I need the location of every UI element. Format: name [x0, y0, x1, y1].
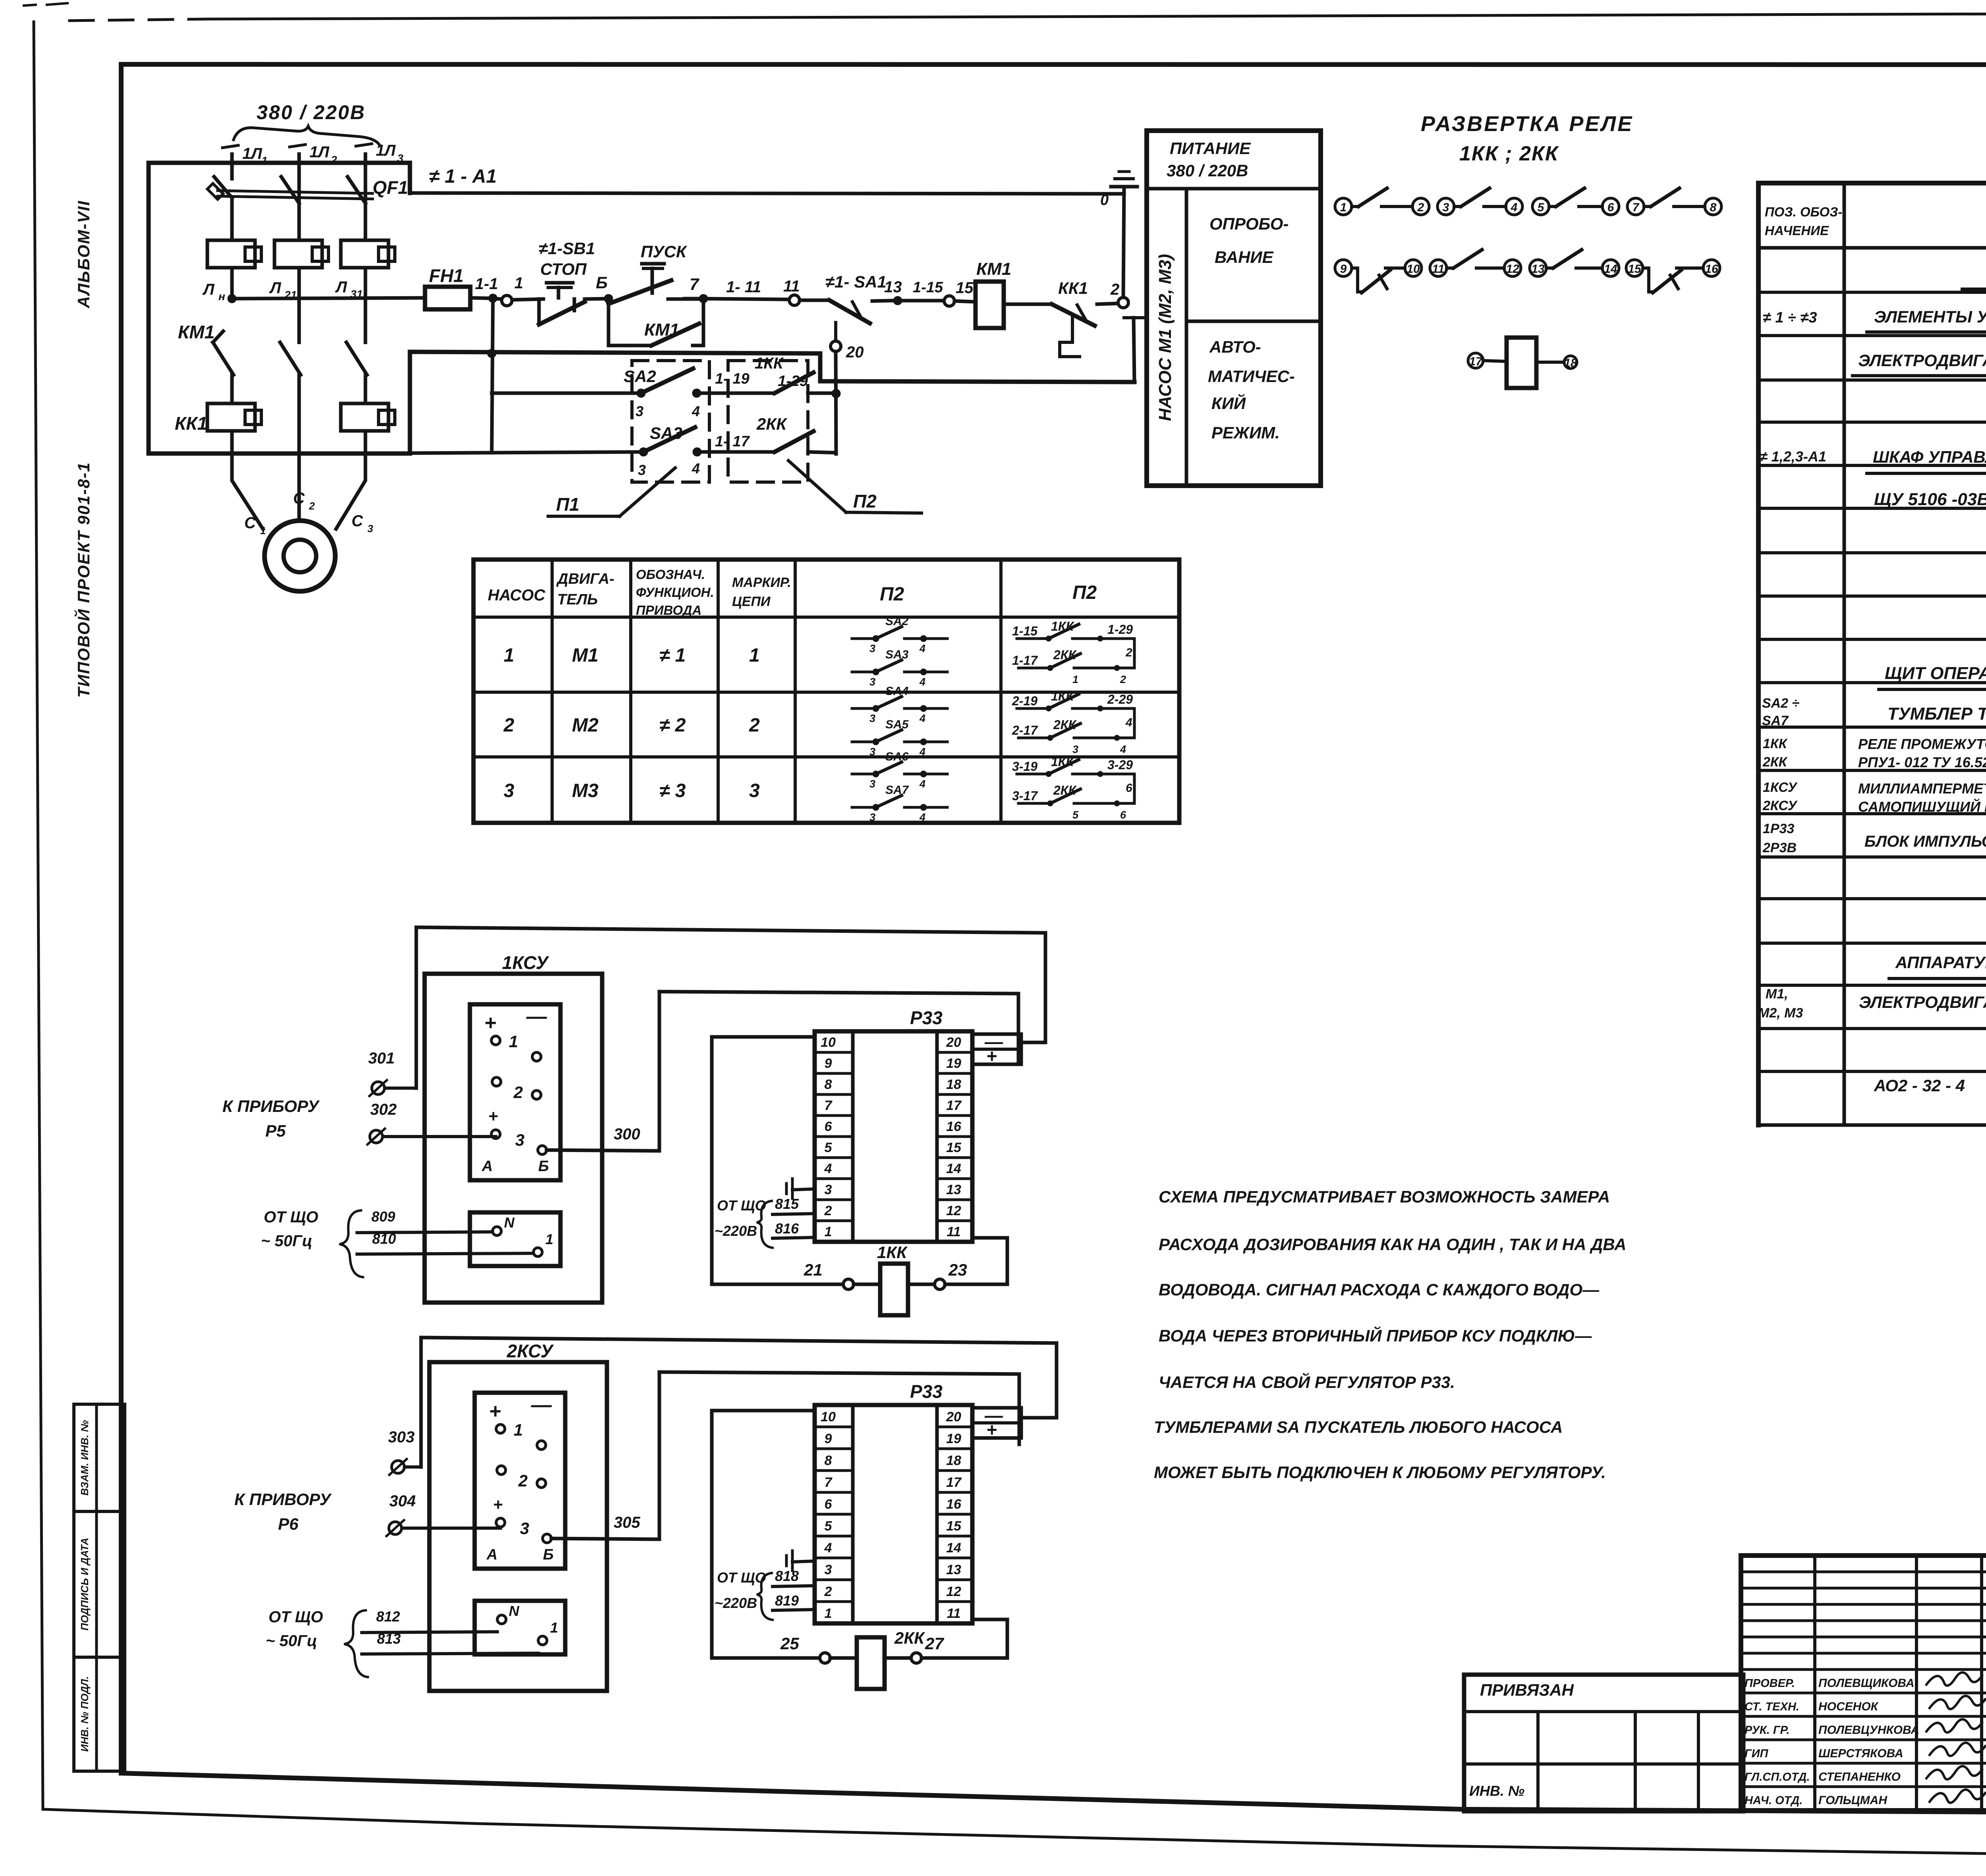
relay dev contact 3-4 — [1437, 188, 1522, 215]
svg-text:РЕЖИМ.: РЕЖИМ. — [1211, 423, 1280, 442]
svg-text:812: 812 — [376, 1608, 400, 1625]
pump table row 2 tumbler contacts SА4/SА5 — [852, 685, 947, 758]
svg-text:ПИТАНИЕ: ПИТАНИЕ — [1170, 139, 1251, 158]
ground symbol — [1100, 172, 1137, 208]
switch SA2 contact — [624, 367, 701, 419]
svg-text:~220В: ~220В — [715, 1595, 757, 1611]
svg-text:2Р3В: 2Р3В — [1762, 840, 1797, 855]
svg-text:23: 23 — [948, 1260, 967, 1279]
svg-text:3: 3 — [367, 523, 373, 535]
label C1 — [244, 514, 266, 537]
parts header Поз. обозначение — [1765, 205, 1842, 238]
parts table grid — [1758, 183, 1986, 1125]
svg-text:14: 14 — [946, 1161, 961, 1176]
svg-text:СТЕПАНЕНКО: СТЕПАНЕНКО — [1818, 1770, 1901, 1783]
svg-text:Б: Б — [538, 1158, 549, 1175]
svg-text:1КСУ: 1КСУ — [1763, 780, 1798, 795]
svg-text:КИЙ: КИЙ — [1211, 393, 1246, 413]
parts row элементы управления — [1763, 307, 1986, 332]
corner mark top-left — [24, 3, 68, 6]
start button SB1 NO contact — [609, 264, 703, 304]
svg-text:Р33: Р33 — [910, 1381, 943, 1402]
drawing frame left — [119, 64, 124, 1773]
start button ПУСК label — [641, 242, 688, 261]
svg-text:1: 1 — [1072, 674, 1078, 685]
contactor coil KM1 — [976, 259, 1011, 328]
svg-text:н: н — [218, 290, 225, 303]
title block outline — [1741, 1556, 1986, 1810]
supply wires 812/813 from ЩО 50Гц — [266, 1608, 538, 1677]
svg-text:305: 305 — [614, 1514, 640, 1531]
svg-text:2-17: 2-17 — [1012, 723, 1038, 737]
svg-text:13: 13 — [946, 1182, 961, 1197]
svg-text:17: 17 — [1469, 355, 1483, 368]
wire SA3 row left — [410, 452, 643, 453]
sheet outer border bottom edge — [43, 1809, 1986, 1862]
svg-text:3: 3 — [749, 780, 760, 801]
left stamp box Привязан — [1464, 1675, 1743, 1811]
svg-text:СХЕМА ПРЕДУСМАТРИВАЕТ ВОЗМОЖ: СХЕМА ПРЕДУСМАТРИВАЕТ ВОЗМОЖНОСТЬ ЗАМЕРА — [1159, 1187, 1610, 1206]
antenna symbol at Р33 terminal 3 (channel 2) — [786, 1551, 815, 1571]
label KM1 main contacts — [178, 322, 214, 342]
junction node Б — [585, 273, 613, 303]
connector 303 to device — [388, 1338, 421, 1475]
svg-text:НАЧ. ОТД.: НАЧ. ОТД. — [1745, 1794, 1802, 1807]
svg-text:8: 8 — [825, 1077, 832, 1092]
enclosure box 1-A1 — [149, 163, 410, 454]
signature row РУК. ГР. ПОЛЕВЦУНКОВА — [1745, 1719, 1982, 1737]
svg-text:БЛОК ИМПУЛЬСАТОРА Р33: БЛОК ИМПУЛЬСАТОРА Р33 — [1864, 833, 1986, 850]
svg-text:—: — — [526, 1005, 547, 1028]
svg-text:ОПРОБО-: ОПРОБО- — [1209, 214, 1289, 233]
regulator Р33 block (channel 2) — [815, 1405, 972, 1623]
svg-text:16: 16 — [1705, 262, 1718, 276]
contactor KM1 blade phase2 — [280, 268, 301, 375]
svg-text:3: 3 — [1443, 201, 1449, 214]
svg-text:2: 2 — [1110, 281, 1119, 298]
svg-text:МОЖЕТ БЫТЬ ПОДКЛЮЧЕН К ЛЮБ: МОЖЕТ БЫТЬ ПОДКЛЮЧЕН К ЛЮБОМУ РЕГУЛЯТОРУ… — [1154, 1463, 1606, 1482]
svg-text:А: А — [481, 1158, 493, 1175]
svg-text:3-29: 3-29 — [1107, 758, 1133, 772]
svg-text:301: 301 — [368, 1050, 395, 1067]
svg-text:18: 18 — [946, 1453, 961, 1468]
svg-text:—: — — [531, 1393, 552, 1417]
pump table row 1 designators — [504, 645, 760, 666]
parts row блок импульсатора — [1762, 821, 1986, 855]
svg-text:1: 1 — [509, 1032, 518, 1051]
svg-text:815: 815 — [775, 1196, 799, 1212]
2КСУ labels А Б — [486, 1546, 554, 1563]
svg-text:2: 2 — [824, 1584, 832, 1599]
svg-text:Р33: Р33 — [910, 1007, 943, 1028]
1КСУ terminals column Б — [532, 1052, 547, 1154]
svg-text:ГИП: ГИП — [1745, 1747, 1769, 1760]
svg-text:4: 4 — [1125, 716, 1132, 729]
label QF1 — [373, 177, 408, 198]
label C2 — [293, 490, 315, 512]
parts row АО2-32-4 — [1874, 1076, 1986, 1097]
svg-text:1: 1 — [514, 274, 523, 292]
svg-text:Б: Б — [596, 273, 608, 292]
svg-text:1-1: 1-1 — [475, 275, 498, 293]
phase line 1L3 — [356, 142, 404, 203]
svg-text:~ 50Гц: ~ 50Гц — [266, 1632, 317, 1650]
svg-text:3: 3 — [869, 643, 875, 654]
svg-text:2: 2 — [1120, 674, 1126, 685]
note paragraph line 4 — [1159, 1326, 1592, 1345]
svg-text:13: 13 — [884, 278, 902, 296]
svg-text:САМОПИШУЩИЙ КСУ2- 003: САМОПИШУЩИЙ КСУ2- 003 — [1858, 798, 1986, 815]
svg-text:4: 4 — [692, 403, 700, 419]
rail KM1-aux return — [410, 352, 820, 353]
wire coil to KK1 contact — [1004, 303, 1052, 306]
svg-text:11: 11 — [947, 1224, 960, 1239]
svg-text:3: 3 — [869, 676, 875, 688]
svg-text:1: 1 — [749, 645, 760, 666]
svg-text:1- 19: 1- 19 — [715, 371, 750, 387]
svg-text:К ПРИВОРУ: К ПРИВОРУ — [234, 1490, 332, 1509]
svg-text:5: 5 — [825, 1140, 833, 1155]
svg-text:АППАРАТУРА ПО МЕСТУ: АППАРАТУРА ПО МЕСТУ — [1895, 953, 1986, 972]
svg-text:≠ 1 ÷ ≠3: ≠ 1 ÷ ≠3 — [1763, 309, 1817, 326]
svg-text:16: 16 — [946, 1119, 962, 1134]
svg-text:ВЗАМ. ИНВ. №: ВЗАМ. ИНВ. № — [79, 1420, 91, 1496]
svg-text:≠ 1 - А1: ≠ 1 - А1 — [429, 166, 496, 187]
svg-text:10: 10 — [1406, 262, 1420, 276]
svg-text:М2: М2 — [572, 715, 599, 736]
svg-text:≠ 2: ≠ 2 — [659, 715, 686, 736]
svg-text:2: 2 — [513, 1083, 523, 1102]
svg-text:FН1: FН1 — [429, 265, 464, 286]
svg-text:300: 300 — [614, 1125, 640, 1143]
signature rows separators — [1741, 1693, 1986, 1787]
label KK1 thermal elements — [175, 413, 207, 434]
contact block phase1 — [207, 198, 261, 268]
svg-text:SА4: SА4 — [885, 685, 909, 698]
svg-text:N: N — [509, 1603, 520, 1619]
1КСУ terminal block А-Б — [470, 1004, 560, 1180]
svg-text:21: 21 — [804, 1260, 823, 1279]
wire feeder Лн to FH1 — [232, 298, 425, 299]
svg-text:ПРОВЕР.: ПРОВЕР. — [1745, 1677, 1795, 1690]
drawing frame bottom — [121, 1773, 1986, 1815]
relay coil 2КК (channel 2) — [780, 1619, 1007, 1689]
svg-text:ЩИТ ОПЕРАТОРА: ЩИТ ОПЕРАТОРА — [1885, 664, 1986, 683]
switch SA3 contact — [638, 424, 701, 478]
terminal circle after 1-1 — [488, 295, 543, 306]
svg-text:ПОЛЕВЦУНКОВА: ПОЛЕВЦУНКОВА — [1818, 1724, 1919, 1737]
relay dev coil 17-18 — [1468, 338, 1577, 388]
svg-text:2КК: 2КК — [756, 415, 788, 433]
svg-text:АВТО-: АВТО- — [1209, 338, 1261, 356]
2КСУ terminals column Б — [537, 1441, 551, 1543]
svg-text:ВОДА ЧЕРЕЗ ВТОРИЧНЫЙ ПРИБО: ВОДА ЧЕРЕЗ ВТОРИЧНЫЙ ПРИБОР КСУ ПОДКЛЮ— — [1159, 1326, 1592, 1345]
pump table row 1 relay contacts — [1012, 619, 1134, 685]
relay coil 1КК (channel 1) — [804, 1238, 1007, 1315]
wire node2 up to ground — [1123, 187, 1124, 297]
pump table header Насос — [488, 587, 546, 604]
pump table row 3 designators — [504, 780, 760, 801]
svg-text:ИНВ. № ПОДЛ.: ИНВ. № ПОДЛ. — [79, 1676, 91, 1752]
stamp label Инв. № подл. — [79, 1676, 91, 1752]
svg-text:20: 20 — [846, 344, 864, 361]
svg-text:2-29: 2-29 — [1107, 692, 1133, 706]
svg-text:+: + — [484, 1011, 496, 1035]
svg-text:1КК: 1КК — [755, 355, 784, 372]
svg-text:9: 9 — [825, 1056, 832, 1071]
recorder 2КСУ enclosure box — [429, 1362, 607, 1691]
svg-text:3: 3 — [869, 778, 875, 790]
svg-text:SА7: SА7 — [885, 784, 909, 797]
svg-text:НАЧЕНИЕ: НАЧЕНИЕ — [1765, 223, 1829, 238]
2КСУ terminals column A — [493, 1421, 529, 1538]
svg-text:Р5: Р5 — [265, 1121, 286, 1140]
svg-text:3: 3 — [825, 1562, 832, 1577]
svg-text:14: 14 — [946, 1540, 961, 1556]
circuit breaker QF1 tie bar — [218, 191, 373, 199]
fuse FH1 — [425, 265, 488, 309]
stop button SB1 NC contact — [539, 283, 585, 324]
svg-text:≠ 1,2,3-А1: ≠ 1,2,3-А1 — [1760, 448, 1826, 465]
wire SA2 to 1KK — [697, 371, 775, 393]
svg-text:2-19: 2-19 — [1012, 694, 1037, 708]
connector П1 dashed outline — [632, 361, 709, 482]
signature grid verticals — [1815, 1556, 1986, 1810]
thermal element KK1 phase3 — [341, 375, 395, 454]
svg-text:РЕЛЕ ПРОМЕЖУТОЧНОЕ: РЕЛЕ ПРОМЕЖУТОЧНОЕ — [1858, 736, 1986, 752]
svg-text:1КК ; 2КК: 1КК ; 2КК — [1459, 142, 1559, 165]
svg-text:4: 4 — [824, 1540, 832, 1556]
svg-text:СТОП: СТОП — [540, 260, 587, 278]
svg-text:М1: М1 — [572, 645, 599, 666]
svg-text:5: 5 — [1072, 809, 1079, 821]
svg-text:1: 1 — [1340, 201, 1347, 214]
svg-text:18: 18 — [1564, 357, 1577, 370]
svg-text:1- 17: 1- 17 — [715, 433, 750, 450]
terminal circle 15 — [944, 279, 976, 306]
svg-text:14: 14 — [1604, 262, 1617, 276]
svg-text:15: 15 — [1628, 262, 1642, 276]
svg-text:ЦЕПИ: ЦЕПИ — [732, 594, 771, 609]
svg-text:12: 12 — [1506, 262, 1519, 276]
label C3 — [352, 512, 373, 535]
supply 220В wires to Р33 1-2 (channel 2) — [715, 1568, 815, 1620]
pump table header П2 first — [880, 584, 904, 605]
svg-text:ПРИВЯЗАН: ПРИВЯЗАН — [1480, 1681, 1575, 1699]
svg-text:1-15: 1-15 — [913, 279, 943, 296]
svg-text:6: 6 — [1126, 782, 1132, 795]
svg-text:4: 4 — [1120, 743, 1126, 755]
parts row шкаф управления — [1760, 448, 1986, 473]
svg-text:2: 2 — [309, 500, 315, 512]
svg-text:3: 3 — [515, 1131, 524, 1149]
2КСУ plus/minus marks — [489, 1393, 552, 1423]
svg-text:ЭЛЕКТРОДВИГАТЕЛЬ 380В , 3кв: ЭЛЕКТРОДВИГАТЕЛЬ 380В , 3квт — [1859, 993, 1986, 1011]
svg-text:6: 6 — [825, 1497, 833, 1512]
svg-text:15: 15 — [946, 1140, 962, 1155]
svg-text:МАРКИР.: МАРКИР. — [732, 575, 791, 590]
svg-text:П2: П2 — [1072, 582, 1097, 603]
contactor KM1 blade phase3 — [346, 268, 367, 375]
svg-text:SА2: SА2 — [885, 615, 909, 628]
svg-text:6: 6 — [1607, 201, 1614, 214]
wire 305 to regulator plus — [551, 1372, 1019, 1539]
svg-text:1: 1 — [825, 1224, 832, 1239]
regulator Р33 block (channel 1) — [815, 1031, 972, 1242]
svg-text:1-15: 1-15 — [1012, 624, 1038, 638]
junction 1-29 — [778, 373, 840, 398]
svg-text:15: 15 — [956, 279, 974, 297]
svg-text:3: 3 — [638, 462, 646, 478]
signature row НАЧ. ОТД. ГОЛЬЦМАН — [1745, 1789, 1985, 1807]
svg-text:РАЗВЕРТКА РЕЛЕ: РАЗВЕРТКА РЕЛЕ — [1421, 112, 1633, 136]
svg-text:1-29: 1-29 — [1107, 622, 1133, 637]
Р33 polarity box (channel 2) — [972, 1405, 1021, 1440]
svg-text:ПОЗ. ОБОЗ-: ПОЗ. ОБОЗ- — [1765, 205, 1842, 219]
svg-text:Р6: Р6 — [278, 1515, 299, 1533]
parts section heading Аппаратура по месту — [1889, 953, 1986, 979]
svg-text:1: 1 — [260, 525, 266, 537]
stamp column box — [74, 1404, 125, 1771]
svg-text:4: 4 — [919, 746, 925, 758]
svg-text:ОТ ЩО: ОТ ЩО — [717, 1569, 766, 1586]
svg-text:3-17: 3-17 — [1012, 789, 1038, 803]
2КСУ terminal block А-Б — [475, 1393, 565, 1569]
thermal relay KK1 break contact — [1052, 279, 1119, 357]
mode cell Автоматический режим — [1208, 338, 1295, 442]
stamp divider 2 — [74, 1656, 125, 1659]
label К прибору Р5 — [222, 1097, 320, 1140]
rail step down to node 20 leg — [820, 353, 1134, 382]
label 2КСУ — [506, 1341, 554, 1361]
svg-text:≠ 3: ≠ 3 — [659, 780, 686, 801]
thermal element KK1 phase1 — [207, 375, 261, 454]
label Л31 — [335, 278, 363, 300]
note paragraph line 7 — [1154, 1463, 1606, 1482]
svg-text:+: + — [489, 1400, 501, 1423]
svg-text:4: 4 — [919, 676, 925, 688]
svg-text:1-29: 1-29 — [778, 373, 808, 390]
wire 303 to regulator minus — [421, 1338, 1057, 1418]
note paragraph line 6 — [1154, 1418, 1563, 1436]
note paragraph line 3 — [1159, 1280, 1600, 1299]
svg-text:ЧАЕТСЯ НА СВОЙ РЕГУЛЯТОР Р: ЧАЕТСЯ НА СВОЙ РЕГУЛЯТОР Р33. — [1159, 1372, 1455, 1392]
wire 13 to 15 — [898, 279, 944, 301]
svg-text:СТ. ТЕХН.: СТ. ТЕХН. — [1745, 1700, 1799, 1713]
svg-text:ТУМБЛЕРАМИ SА ПУСКАТЕЛЬ ЛЮБ: ТУМБЛЕРАМИ SА ПУСКАТЕЛЬ ЛЮБОГО НАСОСА — [1154, 1418, 1563, 1436]
signature grid upper thin rows — [1741, 1572, 1986, 1669]
wire phase2 down — [298, 375, 301, 454]
svg-text:20: 20 — [946, 1035, 961, 1050]
svg-text:SА3: SА3 — [650, 424, 682, 442]
stamp divider 1 — [74, 1510, 125, 1513]
svg-text:КК1: КК1 — [1058, 279, 1088, 297]
svg-text:4: 4 — [919, 712, 925, 724]
pump table header Двигатель — [556, 571, 614, 608]
svg-text:3: 3 — [636, 403, 643, 419]
Р33 left terminal numbers (channel 1) — [815, 1035, 853, 1239]
label Р33 (channel 2) — [910, 1381, 943, 1402]
svg-text:1: 1 — [825, 1606, 832, 1621]
svg-text:9: 9 — [1340, 262, 1347, 276]
wire Р33 terminal 10 loop (channel 1) — [712, 1037, 843, 1284]
contactor KM1 blade phase1 — [213, 268, 234, 375]
svg-text:1Л: 1Л — [376, 142, 396, 159]
pump table header Маркир. цепи — [732, 575, 791, 609]
svg-text:1КК: 1КК — [877, 1243, 908, 1262]
svg-text:3-19: 3-19 — [1012, 759, 1037, 774]
relay dev contact 1-2 — [1335, 188, 1429, 215]
svg-text:≠1-SВ1: ≠1-SВ1 — [539, 239, 595, 258]
relay contact 2KK — [756, 415, 836, 453]
wire phase3 to motor — [336, 454, 365, 529]
svg-text:5: 5 — [1538, 201, 1545, 214]
svg-text:2КСУ: 2КСУ — [1762, 798, 1798, 813]
svg-text:303: 303 — [388, 1428, 415, 1446]
svg-text:17: 17 — [946, 1475, 962, 1490]
svg-text:~220В: ~220В — [715, 1223, 757, 1239]
svg-text:1: 1 — [504, 645, 514, 666]
svg-text:12: 12 — [946, 1203, 961, 1218]
svg-text:302: 302 — [370, 1101, 397, 1118]
switch SA1 break contact — [800, 272, 892, 323]
recorder 1КСУ enclosure box — [425, 974, 602, 1303]
circuit breaker QF1 blades — [214, 177, 365, 203]
svg-text:1Л: 1Л — [242, 145, 263, 162]
svg-text:4: 4 — [919, 643, 925, 654]
relay dev break contact 15-16 — [1626, 260, 1720, 293]
label Л21 — [269, 279, 297, 301]
svg-text:SА3: SА3 — [885, 648, 909, 661]
svg-text:РПУ1- 012 ТУ 16.523. 020 -70: РПУ1- 012 ТУ 16.523. 020 -70 = 24В — [1858, 754, 1986, 770]
svg-text:SА2: SА2 — [624, 367, 656, 386]
mode table box Питание — [1147, 131, 1321, 486]
svg-text:НОСЕНОК: НОСЕНОК — [1818, 1700, 1879, 1713]
svg-text:А: А — [486, 1546, 497, 1563]
1КСУ plus/minus marks — [484, 1005, 547, 1035]
wire phase2 to motor — [298, 454, 301, 521]
motor M1 circle — [265, 521, 335, 591]
note paragraph line 5 — [1159, 1372, 1455, 1392]
wire phase1 to motor — [232, 454, 263, 529]
svg-text:6: 6 — [1120, 809, 1126, 821]
mode table rotated label Насос М1 (М2,М3) — [1155, 254, 1175, 421]
relay dev contact 11-12 — [1430, 250, 1521, 276]
label 1-A1 — [429, 166, 496, 187]
label 1КСУ — [502, 952, 550, 973]
svg-text:4: 4 — [824, 1161, 832, 1176]
svg-text:+: + — [488, 1107, 498, 1125]
pump table row 2 relay contacts — [1012, 689, 1134, 755]
svg-text:809: 809 — [371, 1208, 395, 1225]
wire 7 to 11 — [703, 278, 789, 299]
parts row реле промежуточное — [1762, 736, 1986, 770]
relay development title — [1421, 112, 1633, 165]
svg-text:2: 2 — [1417, 201, 1424, 214]
svg-text:МАТИЧЕС-: МАТИЧЕС- — [1208, 367, 1295, 386]
svg-text:2: 2 — [1125, 646, 1132, 659]
connector П2 dashed outline — [728, 361, 808, 482]
svg-text:ПРИВОДА: ПРИВОДА — [636, 603, 701, 618]
svg-text:ФУНКЦИОН.: ФУНКЦИОН. — [636, 585, 714, 600]
pump table header П2 second — [1072, 582, 1097, 603]
svg-text:К ПРИБОРУ: К ПРИБОРУ — [222, 1097, 320, 1116]
svg-text:+: + — [493, 1495, 503, 1514]
pump table row 1 tumbler contacts SА2/SА3 — [852, 615, 947, 688]
control top rail from A1 — [410, 193, 1124, 194]
sheet outer border left edge — [34, 22, 43, 1809]
margin caption Альбом VII — [74, 200, 93, 309]
